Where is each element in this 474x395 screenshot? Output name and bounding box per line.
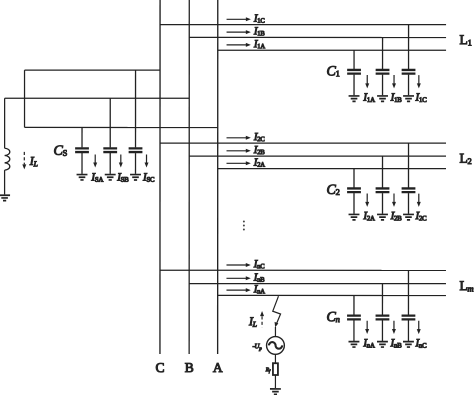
feeder Lm phase-A line <box>218 294 446 296</box>
capacitor C_S phase-B unit <box>103 98 117 174</box>
wire resistor to ground <box>274 375 276 388</box>
arrow I_2B on feeder L2 <box>227 149 251 153</box>
capacitor C1 phase-A unit <box>347 50 361 95</box>
wire from coil to ground <box>4 170 6 194</box>
feeder L1 phase-C line <box>160 24 446 26</box>
arrow I_1C on feeder L1 <box>227 17 251 21</box>
ground of C2 phase-C <box>403 214 414 219</box>
current arrow I_2C (down) <box>417 194 421 207</box>
current arrow I_2B (down) <box>392 194 396 207</box>
ground of Cn phase-C <box>403 342 414 347</box>
feeder L2 phase-C line <box>160 142 446 144</box>
dashed current arrow I_L (down) <box>22 152 26 170</box>
capacitor Cn phase-B unit <box>376 284 390 341</box>
arrow I_nA on feeder Lm <box>226 288 250 292</box>
ground of C_S phase-C <box>130 175 141 180</box>
current arrow I_nB (down) <box>392 321 396 334</box>
arrow I_1A on feeder L1 <box>227 43 251 47</box>
current arrow I_1B (down) <box>392 75 396 88</box>
current arrow I_SC (down) <box>145 154 149 167</box>
ground of C2 phase-A <box>349 214 360 219</box>
feeder Lm phase-B line <box>189 283 446 285</box>
wire from phase-B to coil <box>4 98 6 148</box>
capacitor C_S phase-A unit <box>75 127 89 173</box>
feeder L2 phase-B line <box>189 155 446 157</box>
capacitor C1 phase-B unit <box>376 37 390 95</box>
current arrow I_SB (down) <box>119 154 123 167</box>
ground of coil <box>0 195 10 200</box>
ground of Cn phase-B <box>377 342 388 347</box>
feeder L2 phase-A line <box>218 168 446 170</box>
arrow I_nC on feeder Lm <box>226 263 250 267</box>
capacitor C2 phase-A unit <box>347 169 361 214</box>
capacitor C1 phase-C unit <box>402 25 416 96</box>
ellipsis dots (more feeders) <box>243 221 245 231</box>
resistor R_f <box>273 363 278 375</box>
capacitor Cn phase-A unit <box>347 295 361 341</box>
source phase-C wire (to bus C) <box>25 69 160 71</box>
ground of C1 phase-B <box>377 96 388 101</box>
current arrow I_SA (down) <box>93 154 97 167</box>
wire from fault arrow to source <box>274 327 276 336</box>
svg-text:C: C <box>156 360 165 375</box>
source phase-B wire (to bus B) <box>5 97 190 99</box>
ground of fault branch <box>270 389 281 394</box>
current arrow I_2A (down) <box>365 194 369 207</box>
feeder L1 phase-A line <box>218 49 446 51</box>
arrow I_2A on feeder L2 <box>227 161 251 165</box>
feeder L1 phase-B line <box>189 36 446 38</box>
capacitor Cn phase-C unit <box>402 270 416 341</box>
capacitor C2 phase-B unit <box>376 156 390 214</box>
bus B (vertical) <box>188 0 190 354</box>
AC source U (circle with sine) <box>267 337 285 355</box>
arrow I_nB on feeder Lm <box>226 276 250 280</box>
svg-text:A: A <box>213 360 223 375</box>
arc-suppression coil L (inductor) <box>5 148 10 170</box>
ground of C_S phase-A <box>77 175 88 180</box>
dashed current arrow I_L (up, fault) <box>260 311 264 327</box>
source phase-A wire (to bus A) <box>25 126 218 128</box>
ground of Cn phase-A <box>348 342 359 347</box>
current arrow I_nC (down) <box>417 321 421 334</box>
bus C (vertical) <box>159 0 161 354</box>
bus A (vertical) <box>217 0 219 354</box>
wire source to resistor <box>274 354 276 363</box>
current arrow I_1C (down) <box>417 75 421 88</box>
capacitor C2 phase-C unit <box>402 143 416 214</box>
fault lightning arrow <box>273 296 281 327</box>
arrow I_2C on feeder L2 <box>227 136 251 140</box>
ground of C_S phase-B <box>105 175 116 180</box>
current arrow I_nA (down) <box>365 321 369 334</box>
wire joining phase wires at left <box>24 70 26 127</box>
ground of C1 phase-C <box>403 96 414 101</box>
ground of C2 phase-B <box>377 214 388 219</box>
ground of C1 phase-A <box>349 96 360 101</box>
feeder Lm phase-C line <box>160 269 446 271</box>
arrow I_1B on feeder L1 <box>227 30 251 34</box>
svg-text:B: B <box>185 360 194 375</box>
current arrow I_1A (down) <box>365 75 369 88</box>
capacitor C_S phase-C unit <box>129 70 143 174</box>
